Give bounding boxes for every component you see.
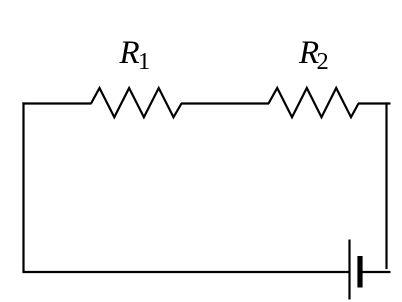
wire: left vertical side of loop (22, 102, 24, 272)
resistor R1 (zigzag) (91, 88, 182, 117)
battery negative terminal (short thick plate) (357, 256, 362, 288)
wire: stub from battery to right vertical wire (360, 271, 391, 273)
svg-text:2: 2 (317, 48, 329, 75)
battery positive terminal (long thin plate) (348, 240, 350, 300)
wire: bottom horizontal from left corner to battery (22, 271, 349, 273)
label R1 (119, 35, 151, 75)
wire: top-left horizontal segment to R1 (22, 102, 91, 104)
svg-text:R: R (119, 35, 140, 71)
svg-text:1: 1 (138, 48, 150, 75)
wire: top middle horizontal segment between R1 and R2 (181, 102, 269, 104)
resistor R2 (zigzag) (269, 88, 359, 117)
wire: top-right horizontal segment from R2 to corner (358, 102, 391, 104)
wire: right vertical side of loop (385, 102, 387, 269)
label R2 (298, 35, 329, 75)
